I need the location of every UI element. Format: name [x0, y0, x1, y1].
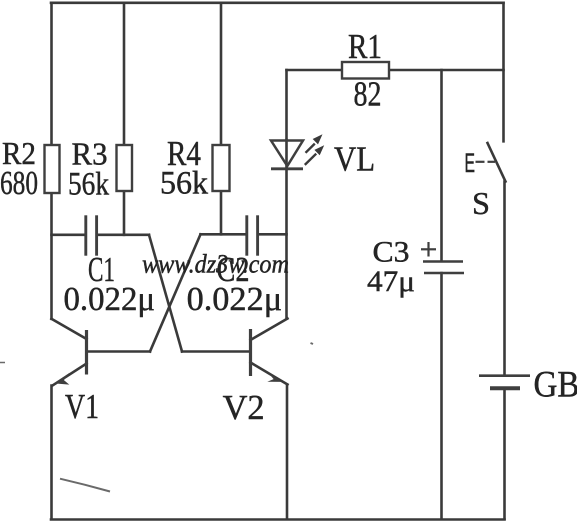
svg-text:VL: VL [334, 140, 375, 179]
svg-text:S: S [472, 185, 490, 221]
svg-text:0.022μ: 0.022μ [187, 281, 283, 318]
svg-text:82: 82 [354, 75, 382, 114]
svg-text:680: 680 [0, 165, 38, 202]
svg-text:V2: V2 [223, 388, 265, 427]
svg-text:E: E [465, 148, 476, 178]
svg-text:C3: C3 [373, 236, 410, 269]
svg-text:56k: 56k [68, 167, 109, 203]
svg-text:www.dz3w.com: www.dz3w.com [142, 250, 289, 279]
svg-text:0.022μ: 0.022μ [64, 281, 156, 318]
svg-text:R1: R1 [348, 27, 382, 66]
svg-text:GB: GB [534, 365, 577, 406]
svg-text:56k: 56k [160, 166, 208, 202]
svg-text:V1: V1 [65, 387, 99, 426]
svg-text:47μ: 47μ [367, 265, 415, 298]
